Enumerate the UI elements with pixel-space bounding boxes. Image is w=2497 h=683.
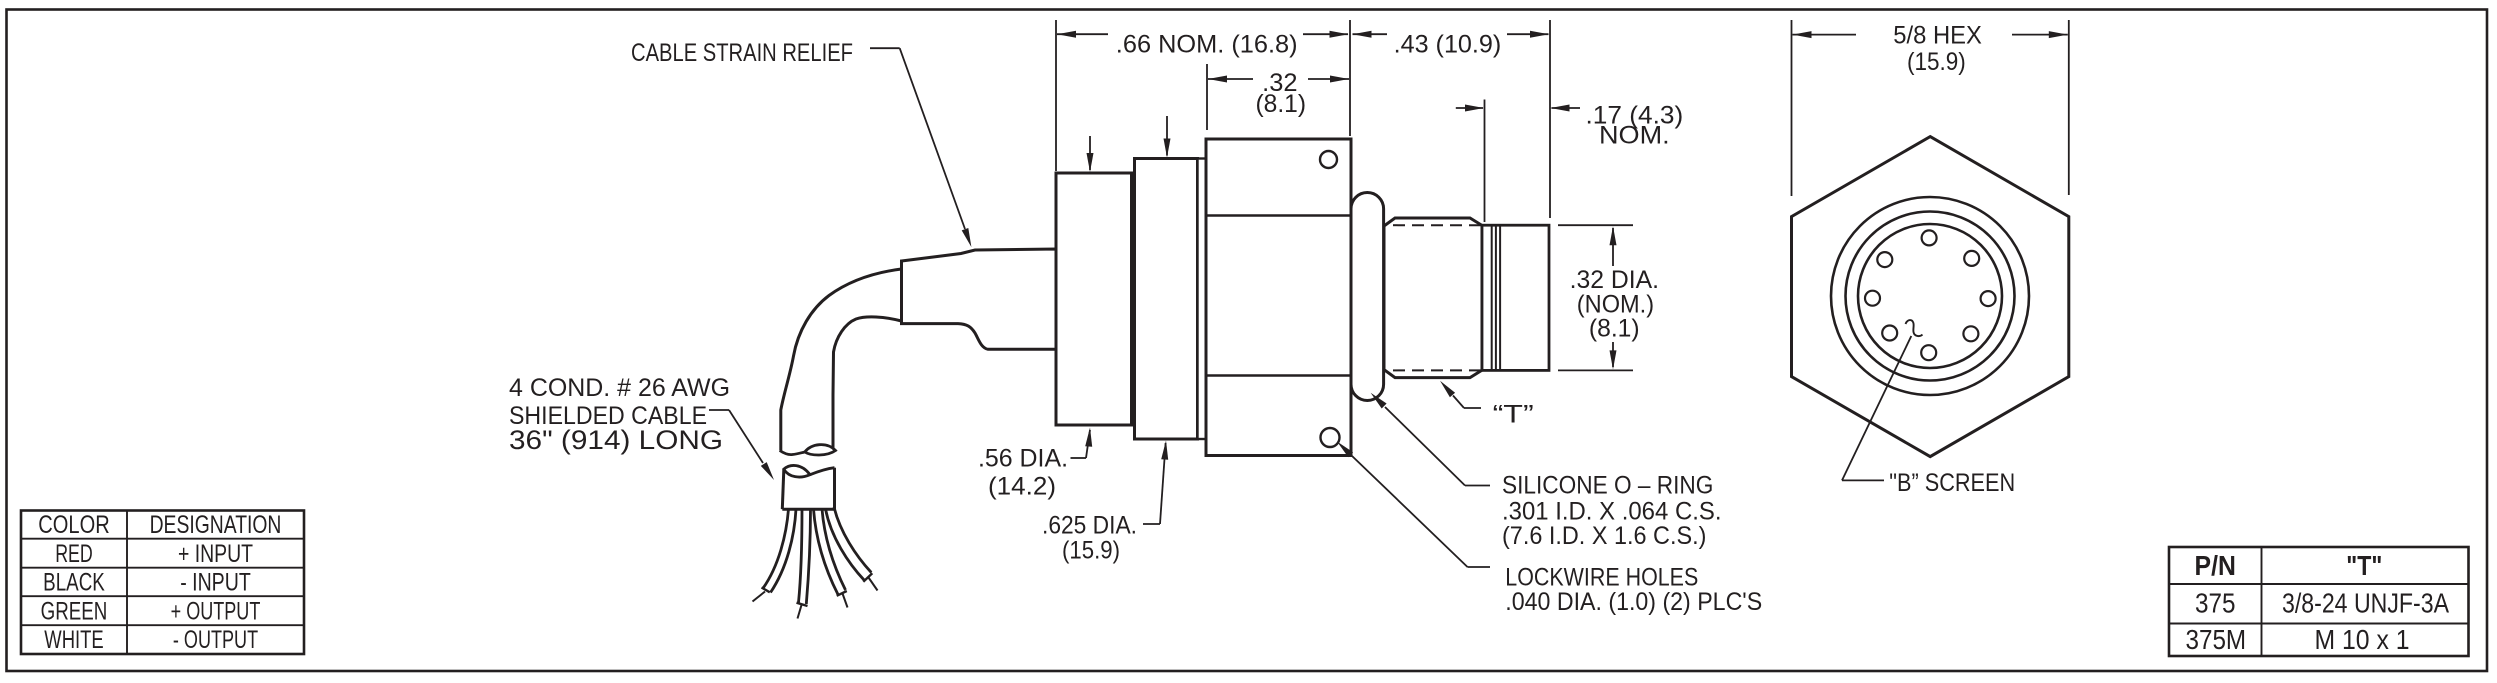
dimension .56 DIA. arrows: [1089, 136, 1091, 170]
connector pin hole 4: [1963, 326, 1978, 341]
svg-text:"T": "T": [2346, 550, 2382, 581]
dimension .66 NOM. (16.8): [1057, 33, 1108, 35]
svg-text:4 COND. # 26 AWG: 4 COND. # 26 AWG: [509, 374, 730, 402]
extension line at hex body left edge: [1206, 64, 1208, 130]
svg-text:- OUTPUT: - OUTPUT: [173, 626, 258, 654]
connector pin hole 8: [1877, 252, 1892, 267]
svg-text:.625 DIA.: .625 DIA.: [1042, 511, 1137, 539]
cable end ferrule: [782, 468, 834, 510]
svg-text:- INPUT: - INPUT: [180, 569, 251, 597]
B screen tab mark: [1906, 320, 1923, 336]
svg-text:DESIGNATION: DESIGNATION: [150, 511, 282, 539]
svg-text:“T”: “T”: [1493, 400, 1534, 428]
extension line at nose tip: [1549, 20, 1551, 218]
body collar A (.56 DIA.): [1056, 173, 1132, 425]
thin washer strip: [1198, 159, 1207, 440]
svg-text:RED: RED: [55, 540, 93, 568]
svg-text:3/8-24 UNJF-3A: 3/8-24 UNJF-3A: [2282, 587, 2449, 618]
connector pin hole 2: [1964, 251, 1979, 266]
svg-text:.66 NOM. (16.8): .66 NOM. (16.8): [1116, 30, 1298, 58]
svg-text:36" (914) LONG: 36" (914) LONG: [509, 425, 723, 455]
connector middle circle: [1846, 212, 2015, 381]
extension line at hex body right edge: [1349, 20, 1351, 136]
svg-text:P/N: P/N: [2195, 550, 2236, 581]
cable break line (upper): [780, 451, 805, 455]
silicone O-ring (side bulge): [1351, 193, 1384, 401]
svg-text:M 10 x 1: M 10 x 1: [2315, 624, 2410, 655]
svg-text:(15.9): (15.9): [1062, 536, 1120, 564]
wire 1 (leftmost): [763, 509, 789, 589]
wire 3: [814, 509, 839, 595]
svg-text:(14.2): (14.2): [988, 472, 1056, 500]
svg-text:.56 DIA.: .56 DIA.: [978, 444, 1068, 472]
svg-text:.040 DIA. (1.0) (2) PLC'S: .040 DIA. (1.0) (2) PLC'S: [1505, 588, 1762, 616]
wire 4 (rightmost): [826, 509, 865, 581]
hex nut outline (end view): [1792, 137, 2069, 457]
svg-text:"B” SCREEN: "B” SCREEN: [1889, 469, 2015, 497]
svg-text:(8.1): (8.1): [1589, 315, 1640, 343]
cable elbow outline: [781, 269, 902, 451]
dimension .625 DIA. arrows: [1166, 116, 1168, 156]
dimension .32 DIA. (NOM.) (8.1): [1558, 224, 1633, 226]
svg-text:BLACK: BLACK: [43, 569, 105, 597]
part number table: [2169, 547, 2469, 656]
svg-text:.43 (10.9): .43 (10.9): [1394, 30, 1502, 58]
svg-text:SILICONE O – RING: SILICONE O – RING: [1502, 471, 1713, 499]
extension line at part A left edge: [1055, 20, 1057, 171]
svg-text:(8.1): (8.1): [1256, 90, 1307, 118]
wire color table: [21, 511, 304, 655]
svg-text:(15.9): (15.9): [1907, 48, 1966, 76]
lockwire hole (bottom): [1321, 428, 1340, 447]
lockwire hole (top): [1320, 151, 1337, 168]
body collar B (.625 DIA.): [1135, 159, 1198, 440]
thread relief grooves and nose: [1482, 225, 1549, 370]
connector pin hole 6: [1882, 326, 1897, 341]
svg-text:CABLE STRAIN RELIEF: CABLE STRAIN RELIEF: [631, 39, 853, 67]
dimension .32 (8.1): [1208, 78, 1253, 80]
svg-text:375M: 375M: [2186, 624, 2247, 655]
svg-text:+ INPUT: + INPUT: [178, 540, 253, 568]
hex body (side view): [1206, 139, 1351, 456]
svg-text:GREEN: GREEN: [41, 597, 108, 625]
connector pin hole 1: [1922, 230, 1937, 245]
svg-text:375: 375: [2195, 587, 2236, 618]
threaded section T: [1384, 218, 1482, 378]
wire 2: [799, 509, 803, 603]
connector pin hole 3: [1981, 291, 1996, 306]
thread root dashed lines: [1393, 224, 1481, 226]
svg-text:COLOR: COLOR: [38, 511, 109, 539]
connector inner circle: [1858, 224, 2002, 368]
connector pin hole 7: [1865, 291, 1880, 306]
dimension 5/8 HEX (15.9): [1791, 20, 1793, 196]
svg-text:5/8 HEX: 5/8 HEX: [1893, 22, 1982, 50]
dimension .43 (10.9): [1353, 33, 1388, 35]
svg-text:+ OUTPUT: + OUTPUT: [171, 597, 261, 625]
svg-text:WHITE: WHITE: [44, 626, 103, 654]
svg-text:(7.6 I.D. X 1.6 C.S.): (7.6 I.D. X 1.6 C.S.): [1502, 522, 1706, 550]
connector outer circle: [1831, 197, 2029, 395]
cable strain relief boot: [902, 249, 1057, 349]
connector pin hole 5: [1921, 345, 1936, 360]
dimension .17 (4.3) NOM.: [1456, 107, 1483, 109]
svg-text:NOM.: NOM.: [1599, 122, 1670, 150]
extension line at groove start: [1484, 100, 1486, 223]
